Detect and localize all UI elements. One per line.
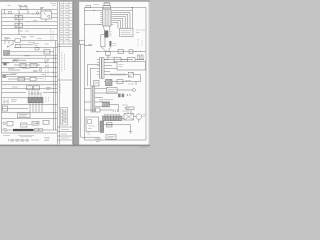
- top right cluster box 2: [128, 57, 136, 61]
- cable ticks: [105, 115, 120, 116]
- tick box: [9, 11, 11, 13]
- wire: [2, 103, 58, 105]
- connector J1 top text: [105, 2, 110, 4]
- corner header text: [50, 4, 56, 6]
- wire: [2, 84, 58, 86]
- scale bar ticks: [9, 139, 29, 142]
- connector J1 inner columns: [105, 9, 108, 26]
- node: [28, 21, 29, 22]
- bundle drop to J2: [104, 56, 108, 60]
- arrow mark: [33, 122, 38, 124]
- component box: [18, 77, 25, 81]
- wire row lower: [104, 81, 141, 83]
- right margin text columns: [138, 39, 142, 47]
- node: [18, 21, 19, 22]
- connector funnel: [101, 47, 111, 52]
- connector J1 pin rows left: [100, 11, 102, 25]
- wire short: [15, 44, 33, 46]
- X box diagonal: [128, 72, 133, 77]
- wire loop 5: [114, 19, 123, 29]
- starter block diagonal: [44, 13, 47, 16]
- wire: [10, 51, 54, 53]
- vertical text near bus: [46, 97, 49, 103]
- wire: [2, 111, 58, 113]
- approval marks: [44, 138, 50, 141]
- text dashes: [99, 100, 113, 101]
- wire stub: [40, 10, 42, 14]
- left lower wire: [98, 75, 101, 77]
- connector J1 label marks: [109, 32, 111, 37]
- small switch box: [16, 45, 21, 48]
- wire down: [130, 125, 132, 132]
- wire stub: [49, 10, 51, 14]
- switch arc: [12, 61, 18, 63]
- wire loop 7: [114, 23, 119, 29]
- wire bundle box: [106, 51, 111, 55]
- title cell marks: [61, 130, 69, 139]
- frame bottom border: [84, 139, 146, 141]
- drawing frame left border: [1, 10, 3, 134]
- wire: [2, 57, 58, 59]
- connector J2 body: [100, 58, 105, 79]
- frame top border: [84, 7, 146, 9]
- wire loop 1: [114, 11, 133, 29]
- wire: [19, 19, 46, 35]
- RIGHT PAGE DRAWING: [79, 3, 147, 147]
- lamp circle: [36, 12, 38, 14]
- drawing frame bottom border: [2, 132, 58, 134]
- bottom shadow line under pages: [0, 144, 150, 146]
- wire stub: [18, 10, 20, 16]
- drawing frame top border: [2, 9, 58, 11]
- funnel side text: [113, 44, 117, 46]
- switch S1 contacts: [7, 46, 8, 47]
- top right cluster box 1: [114, 57, 121, 61]
- left edge component: [79, 40, 84, 44]
- cluster box with rows: [107, 87, 118, 93]
- connector J1 pin rows right: [111, 11, 114, 25]
- connector J2 pin ticks left: [97, 60, 100, 75]
- component box: [44, 50, 50, 55]
- switch arc: [88, 44, 92, 45]
- wire: [2, 28, 58, 30]
- text block box: [120, 29, 134, 37]
- frame right border: [145, 8, 147, 140]
- title divider: [57, 44, 72, 46]
- node on frame: [132, 7, 133, 8]
- vertical drawing title text: [62, 109, 66, 124]
- wire: [2, 21, 58, 23]
- cluster box rows: [108, 89, 117, 91]
- revision table text: [60, 5, 69, 39]
- sensor circle: [39, 68, 42, 71]
- box internal marks: [88, 126, 95, 129]
- left loop wire A: [88, 64, 100, 86]
- component box: [2, 106, 8, 111]
- label text: [18, 30, 29, 32]
- connector J1 neck: [104, 26, 111, 31]
- wire: [2, 107, 29, 109]
- top grey band: [0, 0, 150, 2]
- terminal block 2: [34, 86, 40, 90]
- meter circle: [136, 114, 142, 120]
- node: [127, 94, 128, 95]
- gap between pages: [73, 0, 79, 146]
- node: [136, 51, 137, 52]
- connector J2 center stripe: [101, 58, 103, 79]
- title divider: [57, 79, 72, 81]
- label text: [33, 44, 49, 45]
- node: [140, 51, 141, 52]
- motor circle: [3, 122, 6, 125]
- revision table rows: [59, 4, 72, 41]
- bus side boxes: [35, 128, 39, 131]
- component box: [20, 63, 26, 67]
- end circle: [133, 89, 136, 92]
- drawing number cell box: [61, 108, 68, 126]
- wire label marks: [136, 30, 145, 33]
- terminal block 1: [27, 86, 33, 90]
- node: [132, 59, 133, 60]
- connector pin ticks: [29, 92, 41, 95]
- starter block stub: [45, 10, 47, 12]
- loop1 rise to frame: [131, 8, 133, 11]
- mid box text: [22, 123, 32, 125]
- wire: [2, 76, 58, 78]
- small box: [35, 47, 39, 50]
- wire: [2, 87, 58, 89]
- wire: [2, 67, 58, 69]
- wire to end circle: [117, 89, 133, 91]
- right page cut shade: [149, 2, 151, 145]
- scale bar: [8, 139, 28, 141]
- wire: [2, 13, 58, 15]
- wire short: [8, 60, 40, 70]
- meter side text: [143, 115, 146, 117]
- label text: [21, 37, 34, 38]
- title strip second line: [58, 2, 60, 144]
- wire: [10, 54, 57, 56]
- wires up from X: [128, 110, 131, 114]
- connector J3 body: [91, 86, 95, 112]
- note text under frame: [3, 135, 34, 137]
- label box: [18, 113, 31, 118]
- node: [97, 51, 98, 52]
- label text: [12, 87, 51, 90]
- hatch: [104, 102, 110, 107]
- label text: [33, 21, 37, 22]
- cable segment dividers: [105, 116, 119, 121]
- relay K1: [15, 15, 23, 19]
- wire text: [5, 39, 42, 43]
- wire stub: [4, 10, 6, 14]
- wire: [2, 24, 58, 26]
- relay K1 coil diagonal: [16, 15, 19, 19]
- left marked box: [94, 81, 100, 87]
- node: [114, 62, 115, 63]
- connector J1 narrow box: [101, 35, 105, 47]
- wire: [2, 118, 58, 120]
- wire loop 4: [114, 17, 126, 29]
- wire drop: [135, 82, 137, 85]
- header mark: [40, 8, 44, 9]
- component box: [30, 63, 37, 67]
- battery symbol: [4, 100, 8, 104]
- bottom label box: [106, 135, 116, 139]
- LEFT PAGE DRAWING: [2, 2, 73, 144]
- connector J1 body: [103, 9, 112, 26]
- terminal drop wires: [29, 90, 41, 97]
- wire: [14, 47, 57, 49]
- wire: [2, 34, 58, 36]
- node: [129, 94, 130, 95]
- connector J3 wires right: [95, 89, 118, 107]
- switch S1: [7, 44, 14, 47]
- wire: [2, 17, 58, 19]
- header label box: [21, 7, 28, 10]
- wire dark segment: [2, 62, 10, 64]
- hatched box on wire: [103, 102, 110, 107]
- X diagonals: [124, 114, 134, 120]
- label text: [8, 60, 49, 75]
- tick row: [4, 38, 9, 39]
- rotated label text columns: [46, 56, 49, 80]
- node: [100, 24, 101, 25]
- meter stub: [138, 119, 140, 122]
- wire cable to X: [122, 117, 136, 119]
- small dark box 2: [3, 75, 6, 78]
- stub marks: [87, 133, 90, 135]
- small dark box: [3, 62, 7, 65]
- legend big box: [117, 62, 146, 71]
- scale bar shading: [11, 139, 14, 142]
- left page: [0, 2, 73, 145]
- page edge line: [71, 2, 73, 144]
- hatch: [107, 80, 113, 85]
- wire: [2, 71, 58, 73]
- cable bar hatched: [103, 116, 123, 121]
- vertical text block: [51, 30, 53, 42]
- frame corner label box: [86, 5, 91, 7]
- bus left text: [3, 129, 8, 131]
- fuse box hatched: [4, 51, 10, 56]
- wire loop 2: [114, 13, 131, 29]
- bus wire 2 vertical: [53, 48, 55, 130]
- wire: [2, 97, 29, 99]
- wire to frame: [84, 89, 91, 103]
- resistor vertical 2: [141, 55, 143, 60]
- scatter text: [11, 56, 44, 79]
- wire left from connector: [84, 10, 100, 12]
- box inner small box: [88, 120, 92, 124]
- connector J1 top cap: [104, 3, 110, 6]
- ground symbol: [129, 132, 132, 133]
- frame top text: [94, 4, 100, 6]
- tiny stacked boxes: [107, 122, 113, 124]
- wire across margin: [81, 44, 100, 137]
- relay K2: [15, 23, 23, 27]
- component box mid: [21, 123, 28, 127]
- vertical title text: [62, 52, 65, 72]
- header text: [8, 5, 28, 7]
- label column: [122, 105, 130, 111]
- title strip col line: [68, 2, 70, 44]
- wire loop 3: [114, 15, 128, 29]
- wire drop right: [140, 75, 142, 82]
- wire row: [100, 124, 131, 126]
- connector J3 stripe: [92, 86, 94, 112]
- text block rows: [121, 31, 132, 35]
- component box: [30, 77, 36, 81]
- starter block: [41, 11, 52, 19]
- connector J1 cap2: [103, 6, 111, 10]
- left loop wire B: [90, 68, 99, 86]
- marked box text: [95, 82, 99, 84]
- wire stub: [84, 109, 95, 111]
- title cell small text: [60, 84, 62, 94]
- ground bus heavy bar: [13, 129, 34, 131]
- node: [94, 10, 95, 11]
- tick comb: [114, 110, 118, 113]
- label text: [11, 100, 17, 101]
- frame left border: [83, 8, 85, 140]
- copyright text on background: [139, 146, 147, 148]
- label box text: [19, 115, 28, 117]
- node: [33, 14, 34, 15]
- connector J1 dark text blob: [109, 41, 111, 46]
- connector J2 pins right wires: [104, 60, 141, 75]
- wire: [2, 129, 58, 131]
- wire short: [2, 75, 31, 79]
- hatched box on wire: [106, 79, 113, 85]
- switch row left: [84, 45, 92, 47]
- title divider: [57, 127, 72, 140]
- wire from small box: [100, 109, 113, 111]
- wire: [110, 105, 119, 113]
- hatched vertical bar: [100, 121, 104, 133]
- connector J1 inner rungs: [103, 11, 111, 25]
- box on wire: [15, 39, 21, 43]
- inline box: [118, 49, 124, 53]
- connector hatch: [30, 98, 42, 103]
- inline box 2: [129, 50, 133, 54]
- wire: [18, 20, 20, 23]
- vbar hatch: [100, 121, 103, 131]
- connector J1 dark block: [104, 31, 108, 38]
- fuse box hatch: [4, 51, 9, 55]
- small dark boxes: [118, 94, 121, 98]
- bus junction dots: [55, 58, 56, 59]
- wire: [2, 80, 58, 82]
- title strip inner border: [56, 2, 58, 144]
- inline X box: [128, 72, 133, 77]
- component box: [43, 120, 49, 124]
- revision table mid column: [63, 2, 65, 44]
- wire: [2, 92, 58, 94]
- wire left lower: [84, 24, 100, 26]
- wire right row: [96, 51, 146, 53]
- cable text above: [104, 113, 120, 115]
- background surround: [0, 0, 150, 150]
- wire: [10, 62, 58, 64]
- starter block circle: [48, 15, 50, 17]
- bottom label text: [108, 136, 115, 138]
- page number text: [95, 139, 101, 141]
- small box: [96, 108, 101, 112]
- connector hatched dark: [28, 97, 43, 103]
- cluster wires: [121, 59, 143, 61]
- bus wire vertical: [55, 41, 57, 130]
- label text: [106, 57, 134, 84]
- X box: [124, 114, 134, 120]
- arrow component: [32, 121, 39, 125]
- inline box: [117, 79, 123, 83]
- relay K2 coil diagonal: [16, 23, 19, 27]
- node: [143, 59, 144, 60]
- wire stub: [27, 10, 29, 14]
- legend box marks: [119, 65, 124, 67]
- wire loop 6: [114, 21, 121, 29]
- wire heavy: [2, 40, 58, 42]
- big bottom-left box: [86, 117, 99, 132]
- comb connector ticks: [111, 73, 125, 75]
- connector pins down: [30, 103, 42, 112]
- scale text: [31, 139, 39, 141]
- small box above: [126, 107, 134, 110]
- resistor vertical 1: [138, 55, 140, 60]
- right page: [79, 2, 148, 145]
- switch drop wires: [5, 41, 13, 44]
- component box: [7, 121, 13, 126]
